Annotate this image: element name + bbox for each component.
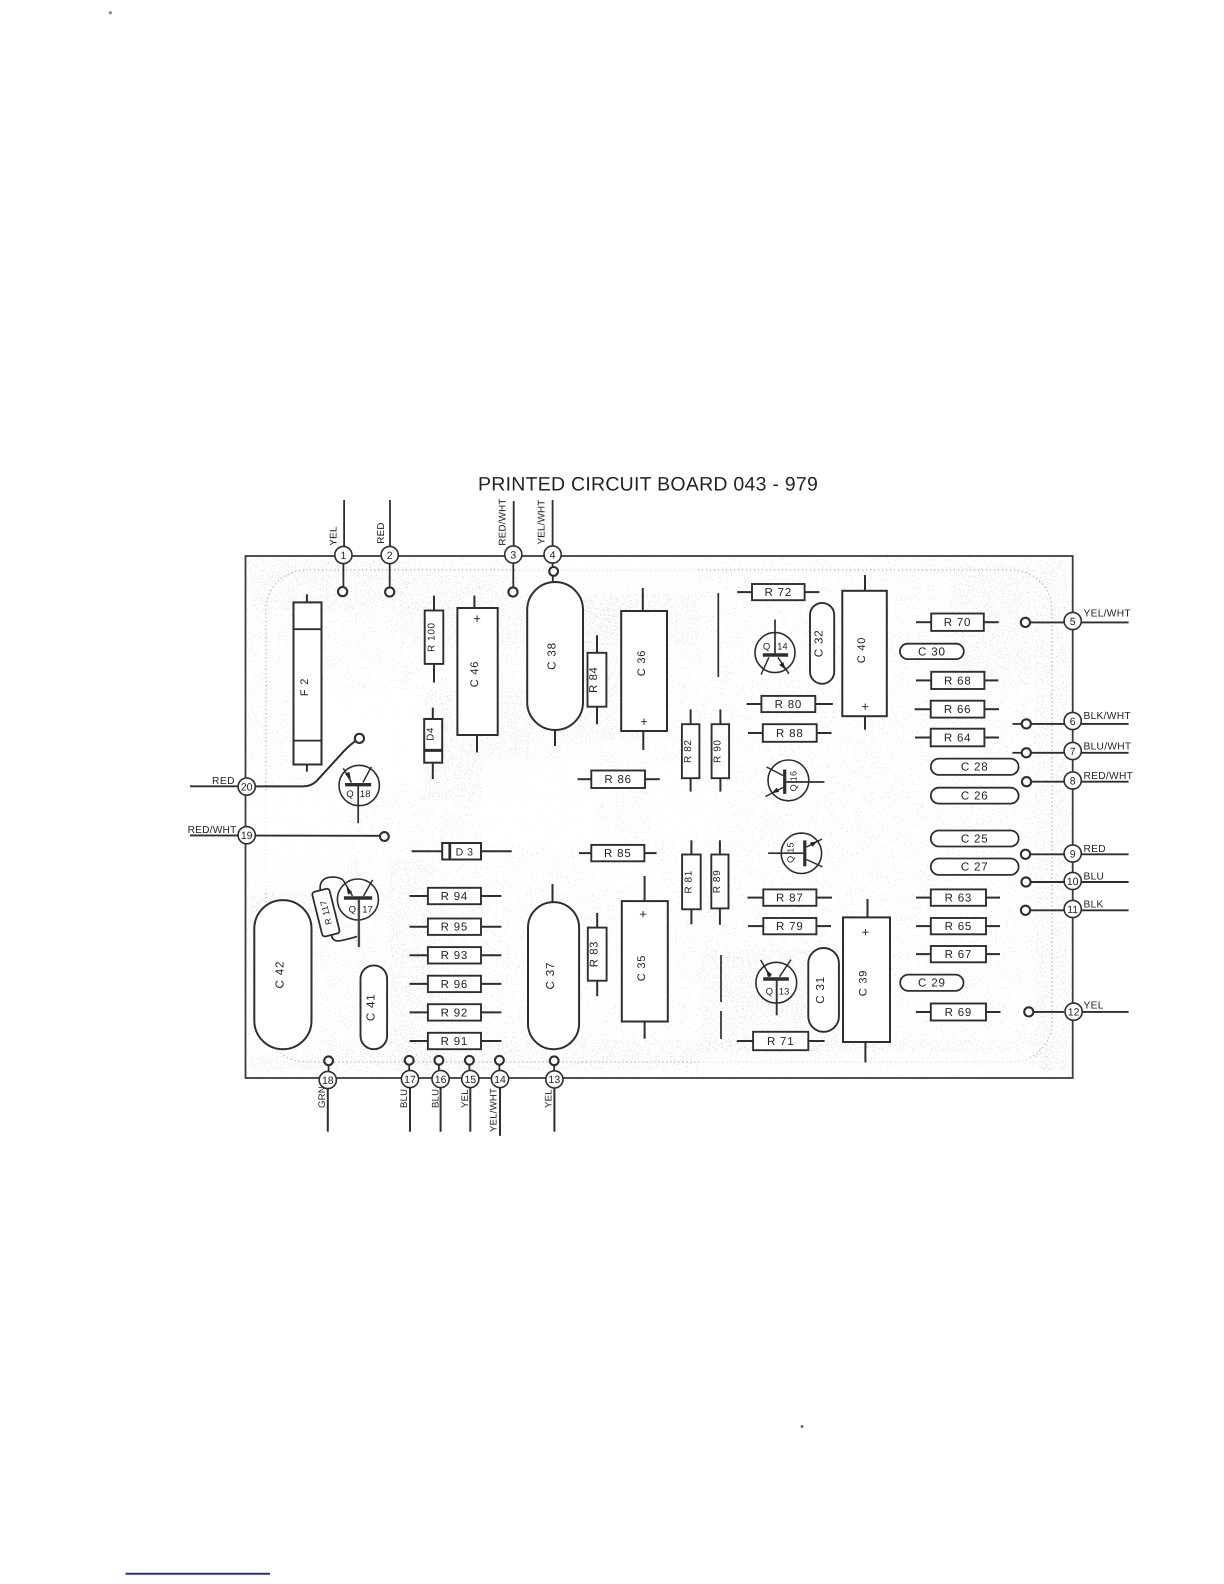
svg-text:R 72: R 72 xyxy=(765,587,793,599)
svg-text:F 2: F 2 xyxy=(299,678,311,696)
svg-text:Q 16: Q 16 xyxy=(789,771,799,792)
svg-text:R 100: R 100 xyxy=(426,622,437,652)
svg-text:R 66: R 66 xyxy=(944,704,972,716)
svg-text:Q: Q xyxy=(349,905,356,916)
svg-text:BLK: BLK xyxy=(1084,899,1104,910)
svg-text:19: 19 xyxy=(241,830,253,842)
svg-text:+: + xyxy=(640,714,648,729)
svg-text:13: 13 xyxy=(549,1074,561,1086)
svg-text:14: 14 xyxy=(777,641,788,652)
svg-text:R 68: R 68 xyxy=(944,675,972,687)
svg-text:13: 13 xyxy=(779,987,790,998)
svg-text:R 84: R 84 xyxy=(588,667,600,693)
svg-text:BLU: BLU xyxy=(1084,871,1105,882)
svg-text:10: 10 xyxy=(1067,876,1079,888)
svg-text:PRINTED CIRCUIT BOARD 043 - 9: PRINTED CIRCUIT BOARD 043 - 979 xyxy=(478,474,818,496)
svg-text:R 71: R 71 xyxy=(767,1036,795,1048)
svg-text:BLU: BLU xyxy=(430,1089,441,1108)
svg-text:8: 8 xyxy=(1070,775,1076,787)
svg-text:C 31: C 31 xyxy=(814,976,827,1004)
svg-text:R 90: R 90 xyxy=(713,739,724,763)
svg-text:C 29: C 29 xyxy=(918,977,946,990)
svg-text:6: 6 xyxy=(1070,716,1076,728)
svg-text:Q: Q xyxy=(763,641,770,652)
svg-text:9: 9 xyxy=(1070,848,1076,860)
svg-text:R 79: R 79 xyxy=(776,921,804,933)
svg-text:C 28: C 28 xyxy=(961,761,989,774)
svg-text:C 42: C 42 xyxy=(273,961,286,989)
svg-text:C 30: C 30 xyxy=(918,645,946,658)
svg-text:YEL: YEL xyxy=(329,526,340,546)
svg-text:R 86: R 86 xyxy=(604,774,632,786)
svg-text:11: 11 xyxy=(1067,904,1078,916)
svg-text:R 91: R 91 xyxy=(441,1036,469,1048)
svg-text:R 82: R 82 xyxy=(683,739,694,763)
svg-text:4: 4 xyxy=(550,549,556,561)
svg-text:BLU/WHT: BLU/WHT xyxy=(1084,741,1132,752)
svg-text:R 95: R 95 xyxy=(441,922,469,934)
svg-text:R 64: R 64 xyxy=(944,732,972,744)
svg-text:7: 7 xyxy=(1070,746,1076,758)
svg-text:R 92: R 92 xyxy=(441,1007,469,1019)
svg-text:RED: RED xyxy=(212,776,235,787)
svg-text:C 46: C 46 xyxy=(469,661,481,687)
svg-text:Q: Q xyxy=(766,987,773,998)
svg-text:R 88: R 88 xyxy=(776,728,804,740)
svg-text:17: 17 xyxy=(362,905,373,916)
svg-text:BLU: BLU xyxy=(399,1089,410,1108)
svg-text:YEL: YEL xyxy=(543,1089,554,1108)
svg-text:15: 15 xyxy=(464,1074,476,1086)
svg-text:18: 18 xyxy=(322,1075,334,1087)
svg-text:YEL/WHT: YEL/WHT xyxy=(488,1088,499,1132)
svg-text:Q: Q xyxy=(346,789,353,800)
svg-text:17: 17 xyxy=(404,1074,416,1086)
svg-text:RED: RED xyxy=(376,522,387,544)
svg-text:R 87: R 87 xyxy=(776,893,804,905)
svg-text:D 3: D 3 xyxy=(456,846,474,858)
svg-text:+: + xyxy=(861,699,869,714)
svg-text:R 67: R 67 xyxy=(945,949,973,961)
svg-text:BLK/WHT: BLK/WHT xyxy=(1084,711,1131,722)
svg-text:12: 12 xyxy=(1068,1007,1080,1019)
svg-text:C 41: C 41 xyxy=(364,993,377,1021)
svg-text:YEL: YEL xyxy=(1084,1000,1104,1011)
svg-text:C 38: C 38 xyxy=(546,642,559,670)
svg-text:D4: D4 xyxy=(425,727,436,741)
svg-text:C 39: C 39 xyxy=(857,970,869,996)
svg-text:R 96: R 96 xyxy=(441,979,469,991)
svg-text:C 36: C 36 xyxy=(636,650,648,676)
svg-text:C 26: C 26 xyxy=(961,790,989,803)
svg-text:R 94: R 94 xyxy=(441,891,469,903)
svg-text:YEL: YEL xyxy=(460,1089,471,1108)
svg-text:C 27: C 27 xyxy=(961,861,989,874)
svg-text:18: 18 xyxy=(360,789,371,800)
svg-text:R 69: R 69 xyxy=(945,1007,973,1019)
svg-text:RED/WHT: RED/WHT xyxy=(188,825,237,836)
svg-text:R 85: R 85 xyxy=(604,848,632,860)
svg-text:C 35: C 35 xyxy=(636,955,648,981)
svg-text:R 80: R 80 xyxy=(775,699,803,711)
svg-text:R 63: R 63 xyxy=(945,893,973,905)
svg-text:16: 16 xyxy=(435,1074,447,1086)
svg-text:Q 15: Q 15 xyxy=(786,842,796,863)
svg-text:R 70: R 70 xyxy=(944,617,972,629)
svg-text:5: 5 xyxy=(1070,616,1076,628)
svg-text:20: 20 xyxy=(241,781,253,793)
svg-text:R 89: R 89 xyxy=(712,870,723,894)
svg-text:R 83: R 83 xyxy=(589,941,601,967)
svg-text:YEL/WHT: YEL/WHT xyxy=(1084,609,1131,620)
svg-text:+: + xyxy=(639,907,647,922)
svg-text:R 93: R 93 xyxy=(441,950,469,962)
svg-text:+: + xyxy=(862,925,870,940)
svg-text:R 81: R 81 xyxy=(684,870,695,894)
svg-text:C 37: C 37 xyxy=(544,962,557,990)
svg-text:C 40: C 40 xyxy=(856,637,868,663)
svg-text:+: + xyxy=(473,611,481,626)
svg-text:C 32: C 32 xyxy=(813,630,826,658)
svg-text:RED/WHT: RED/WHT xyxy=(1084,771,1134,782)
svg-text:2: 2 xyxy=(387,550,393,562)
svg-text:R 65: R 65 xyxy=(945,921,973,933)
svg-text:C 25: C 25 xyxy=(961,832,989,845)
svg-text:YEL/WHT: YEL/WHT xyxy=(537,500,548,545)
svg-text:1: 1 xyxy=(340,550,346,562)
svg-text:RED: RED xyxy=(1084,844,1106,855)
svg-text:3: 3 xyxy=(510,549,516,561)
svg-text:RED/WHT: RED/WHT xyxy=(497,498,508,545)
svg-text:GRN: GRN xyxy=(317,1086,328,1108)
svg-text:14: 14 xyxy=(494,1074,506,1086)
